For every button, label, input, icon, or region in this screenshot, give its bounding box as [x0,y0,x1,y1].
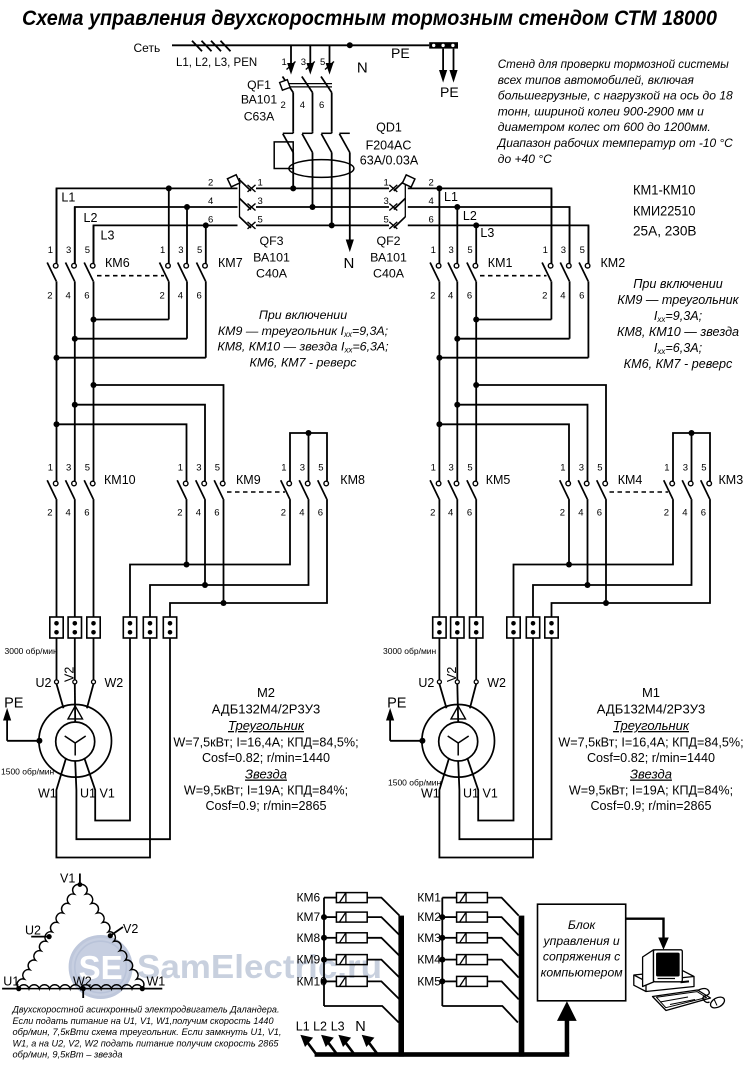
svg-text:1: 1 [560,463,565,474]
svg-text:КМ3: КМ3 [417,931,441,945]
svg-text:4: 4 [178,291,183,302]
svg-text:U1: U1 [80,787,96,801]
contactor pole 5-6 of КМ3 [707,481,712,486]
contactor pole 5-6 of КМ9 [220,481,225,486]
triangle tick W1 [142,988,162,990]
contactor КМ2 pole 5-6 [587,225,589,263]
RCD QD1 pole 4 [339,132,349,134]
svg-text:W2: W2 [73,975,92,989]
svg-text:QF2: QF2 [376,234,400,248]
watermark SamElectric.ru logo [70,937,382,998]
svg-text:Двухскоростной асинхронный эле: Двухскоростной асинхронный электродвигат… [12,1005,280,1016]
node rail L1 junction x=293.2 [290,185,296,191]
svg-text:W2: W2 [487,676,506,690]
contactor pole 1-2 of КМ3 [670,481,675,486]
svg-text:5: 5 [580,245,585,256]
svg-text:V2: V2 [123,922,138,936]
svg-text:W2: W2 [105,676,124,690]
wire ladder common [323,898,325,1006]
breaker QF2 [394,180,406,191]
motor M1 terminal V2 [455,680,459,684]
svg-text:С40А: С40А [256,267,288,281]
wire star bridge KM3 [673,433,710,481]
triangle tick U1 [2,988,19,990]
svg-text:PE: PE [4,696,24,712]
svg-text:PE: PE [387,696,407,712]
wire ladder common [441,898,443,1006]
svg-text:L1: L1 [296,1020,310,1034]
svg-text:5: 5 [320,57,325,68]
svg-text:1500 обр/мин: 1500 обр/мин [1,767,55,777]
svg-text:Стенд для проверки тормозной с: Стенд для проверки тормозной системы [498,57,729,71]
svg-text:3: 3 [66,463,71,474]
motor M2 terminal V2 [73,680,77,684]
svg-text:1: 1 [282,57,287,68]
wire motor V1 loop [84,638,130,821]
svg-text:Блок: Блок [568,918,597,932]
svg-text:КМ7: КМ7 [218,256,243,270]
triangle tap V2 [108,933,113,938]
svg-text:обр/мин, 9,5кВт – звезда: обр/мин, 9,5кВт – звезда [13,1050,123,1061]
svg-text:5: 5 [597,463,602,474]
RCD QD1 test rectangle [274,142,293,169]
svg-text:25А, 230В: 25А, 230В [633,223,697,239]
breaker QF1 tie bar and handle [284,83,332,85]
wire coil КМ1 to bus [487,898,518,916]
wire KM5.6 to terminal [475,499,477,617]
svg-text:W=9,5кВт; I=19А; КПД=84%;: W=9,5кВт; I=19А; КПД=84%; [569,784,733,798]
svg-text:Звезда: Звезда [630,767,672,782]
contactor КМ1 pole 3-4 [456,207,458,264]
svg-text:5: 5 [467,463,472,474]
bus thick right vertical [519,916,525,1057]
svg-text:С63А: С63А [244,110,275,124]
svg-text:5: 5 [467,245,472,256]
RCD QD1 pole 2 [312,132,314,134]
svg-text:1: 1 [664,463,669,474]
contactor КМ2 pole 1-2 [550,188,552,263]
svg-text:V2: V2 [445,667,459,682]
motor M2 terminal W2 [92,680,96,684]
svg-text:2: 2 [430,508,435,519]
node rail L3 junction x=476.2 [473,222,479,228]
wire KM10.4 to terminal [74,499,76,617]
svg-text:2: 2 [542,291,547,302]
svg-text:АДБ132М4/2Р3У3: АДБ132М4/2Р3У3 [597,702,705,717]
svg-text:1: 1 [543,245,548,256]
svg-text:6: 6 [84,291,89,302]
wire cross KM1.2-KM2.6 [439,357,588,359]
contactor pole 1-2 of КМ9 [183,481,188,486]
svg-text:4: 4 [560,291,565,302]
terminal block x=476.2 [470,617,483,638]
wire control box to computer [626,919,664,938]
motor M2 PE wire [36,738,42,744]
svg-text:При включении: При включении [259,308,347,322]
svg-text:4: 4 [448,291,453,302]
triangle tick V1 [79,874,81,885]
breaker QF3 [240,180,252,191]
svg-text:КМ4: КМ4 [618,473,643,487]
contactor pole 5-6 of КМ5 [473,481,478,486]
svg-text:4: 4 [196,508,201,519]
svg-text:W=9,5кВт; I=19А; КПД=84%;: W=9,5кВт; I=19А; КПД=84%; [184,784,348,798]
contactor pole 3-4 of КМ10 [72,481,77,486]
svg-text:КМ10: КМ10 [104,473,136,487]
svg-text:1: 1 [258,177,263,188]
svg-text:компьютером: компьютером [541,965,624,979]
svg-text:6: 6 [579,291,584,302]
motor M1 PE wire [419,738,425,744]
wire motor U1 loop [458,638,551,839]
svg-text:L3: L3 [331,1020,345,1034]
terminal block x=74.8 [68,617,81,638]
svg-text:сопряжения с: сопряжения с [543,950,620,964]
wire coil КМ8 to bus [367,938,399,956]
wire tap right to KM4.1 [439,424,569,481]
svg-text:КМ9: КМ9 [297,953,321,967]
wire column right 2 [475,320,477,482]
svg-text:всех типов автомобилей, включа: всех типов автомобилей, включая [498,73,694,87]
computer icon [634,950,726,1011]
svg-text:КМ8, КМ10 — звезда Iхх=6,3А;: КМ8, КМ10 — звезда Iхх=6,3А; [217,340,389,355]
interlock dashed KM1-KM2 [480,275,547,277]
wire motor W1 loop [56,638,150,858]
bus thick bottom horizontal [315,1052,570,1057]
svg-text:4: 4 [682,508,687,519]
terminal block x=56.5 [50,617,63,638]
svg-text:ВА101: ВА101 [370,251,407,265]
contactor pole 1-2 of КМ5 [436,481,441,486]
svg-text:W1: W1 [421,787,440,801]
node rail L2 junction x=312.5 [310,204,316,210]
wire N with arrow [346,240,353,251]
svg-text:4: 4 [300,100,305,111]
svg-text:КМИ22510: КМИ22510 [633,203,696,219]
svg-text:2: 2 [560,508,565,519]
breaker QF1 pole 5-6 [329,45,331,66]
winding triangle delta diagram [17,884,80,988]
svg-text:КМ8: КМ8 [297,931,321,945]
svg-text:ВА101: ВА101 [241,93,277,107]
svg-text:N: N [355,1019,365,1035]
svg-text:L3: L3 [480,226,494,240]
wire motor W1 loop [439,638,533,858]
svg-text:КМ5: КМ5 [486,473,511,487]
svg-text:V1: V1 [483,787,498,801]
svg-text:КМ6, КМ7 - реверс: КМ6, КМ7 - реверс [250,356,358,370]
contactor КМ7 pole 1-2 [168,188,170,263]
wire cross KM6.6-KM7.2 [94,319,169,321]
svg-text:диаметром колес от 600 до 1200: диаметром колес от 600 до 1200мм. [498,120,711,134]
svg-text:5: 5 [85,463,90,474]
svg-text:6: 6 [319,100,324,111]
svg-text:4: 4 [448,508,453,519]
svg-text:6: 6 [429,214,434,225]
contactor КМ6 pole 1-2 [56,188,58,263]
triangle tap W2 [81,986,86,991]
svg-text:L1, L2, L3, PEN: L1, L2, L3, PEN [176,57,257,69]
wire supply top [172,44,429,46]
svg-text:АДБ132М4/2Р3У3: АДБ132М4/2Р3У3 [212,702,320,717]
svg-text:V2: V2 [62,667,76,682]
svg-text:2: 2 [47,291,52,302]
svg-text:4: 4 [578,508,583,519]
svg-text:3: 3 [300,463,305,474]
svg-text:1: 1 [281,463,286,474]
wire low 2 right (B3'-KM4-KM3) [552,499,711,617]
svg-text:тонн, шириной колеи 900-2900 м: тонн, шириной колеи 900-2900 мм и [498,104,704,118]
node rail L1 junction x=168.8 [166,185,172,191]
svg-text:5: 5 [85,245,90,256]
terminal block x=533.0 [526,617,539,638]
svg-text:2: 2 [160,291,165,302]
svg-text:3: 3 [258,196,263,207]
motor M2 body [39,705,112,778]
terminal block x=513.5 [507,617,520,638]
contactor pole 5-6 of КМ8 [324,481,329,486]
wire KM5.4 to terminal [456,499,458,617]
svg-text:КМ7: КМ7 [297,910,321,924]
svg-text:5: 5 [701,463,706,474]
svg-text:5: 5 [384,214,389,225]
svg-text:1: 1 [431,245,436,256]
node rail L2 junction x=187.0 [184,204,190,210]
wire motor V1 loop [467,638,513,821]
svg-text:КМ2: КМ2 [601,256,626,270]
svg-text:до +40 °С: до +40 °С [498,152,552,166]
svg-text:ВА101: ВА101 [253,251,290,265]
wire tap right to KM4.5 [476,385,606,481]
node N junction [347,42,353,48]
wire low 1 right (B2'-KM4-KM3) [533,499,692,617]
svg-text:3000 обр/мин: 3000 обр/мин [383,646,437,656]
breaker QF1 pole 1-2 [290,45,292,66]
svg-text:При включении: При включении [633,277,723,291]
svg-text:КМ6: КМ6 [105,256,130,270]
svg-text:6: 6 [467,508,472,519]
svg-text:2: 2 [281,100,286,111]
svg-text:5: 5 [215,463,220,474]
svg-text:6: 6 [467,291,472,302]
bus thick riser to control box with arrow [565,1019,570,1054]
svg-text:U1: U1 [3,975,19,989]
svg-text:большегрузные, с нагрузкой на: большегрузные, с нагрузкой на ось до 18 [498,89,733,103]
svg-text:КМ8: КМ8 [340,473,365,487]
svg-text:6: 6 [597,508,602,519]
svg-text:Схема управления двухскоростны: Схема управления двухскоростным тормозны… [22,7,717,30]
svg-text:управления и: управления и [543,934,620,948]
svg-text:L2: L2 [463,209,477,223]
supply arrows L1 L2 L3 N [305,1040,316,1054]
svg-text:W=7,5кВт; I=16,4А; КПД=84,5%;: W=7,5кВт; I=16,4А; КПД=84,5%; [173,736,358,750]
svg-text:L2: L2 [84,211,98,225]
wire tap left to KM9.3 [75,405,205,482]
motor M1 delta symbol [451,706,466,719]
contactor pole 3-4 of КМ5 [454,481,459,486]
svg-text:Если подать питание на U1, V1,: Если подать питание на U1, V1, W1,получи… [13,1016,275,1027]
node rail L2 junction x=457.3 [454,204,460,210]
svg-text:1: 1 [384,177,389,188]
wire low 1 left (B2-KM9-KM8) [150,499,309,617]
svg-text:обр/мин, 7,5кВти схема треугол: обр/мин, 7,5кВти схема треугольник. Если… [13,1027,282,1038]
svg-text:Треугольник: Треугольник [613,718,690,733]
interlock dashed KM9-KM8 [227,491,285,493]
bus thick left vertical [398,916,404,1057]
contactor pole 3-4 of КМ9 [202,481,207,486]
svg-text:КМ2: КМ2 [417,910,441,924]
terminal block x=170.0 [163,617,176,638]
wire tap right to KM4.3 [457,405,587,482]
svg-text:6: 6 [214,508,219,519]
svg-text:6: 6 [318,508,323,519]
svg-text:W1: W1 [38,787,57,801]
wire tap left to KM9.1 [57,424,187,481]
svg-text:2: 2 [47,508,52,519]
svg-text:2: 2 [664,508,669,519]
svg-text:L1: L1 [61,191,75,205]
svg-text:1: 1 [160,245,165,256]
wire coil КМ6 to bus [367,898,399,916]
RCD QD1 sensor ellipse [289,160,354,178]
svg-text:3: 3 [196,463,201,474]
wire motor U1 loop [75,638,170,839]
node rail L3 junction x=331.7 [329,222,335,228]
wire coil КМ7 to bus [367,917,399,935]
svg-text:КМ6, КМ7 - реверс: КМ6, КМ7 - реверс [624,357,733,371]
terminal block x=130.0 [123,617,136,638]
wire cross KM6.4-KM7.4 [75,338,187,340]
motor M2 terminal U2 [55,680,59,684]
wire cross KM1.6-KM2.2 [476,319,551,321]
terminal block x=457.3 [451,617,464,638]
svg-text:U2: U2 [36,676,52,690]
contactor pole 3-4 of КМ8 [305,481,310,486]
PE down arrows [442,49,444,72]
svg-text:Треугольник: Треугольник [228,718,305,733]
wire coil КМ9 to bus [367,960,399,978]
svg-text:Сеть: Сеть [134,41,161,55]
svg-text:М2: М2 [257,685,275,700]
interlock dashed KM6-KM7 [97,275,164,277]
wire tap left to KM9.5 [94,385,224,481]
breaker QF1 pole 3-4 [309,45,311,66]
svg-text:3: 3 [66,245,71,256]
wire column right 1 [456,339,458,482]
RCD QD1 pole 3 [331,132,333,134]
contactor pole 1-2 of КМ8 [287,481,292,486]
svg-text:КМ3: КМ3 [719,473,744,487]
svg-text:4: 4 [299,508,304,519]
wire column right 0 [438,358,440,482]
contactor pole 3-4 of КМ3 [688,481,693,486]
node rail L3 junction x=205.8 [203,222,209,228]
svg-text:U2: U2 [418,676,434,690]
control box [538,904,626,1001]
wire cross KM1.4-KM2.4 [457,338,569,340]
motor M1 body [422,705,495,778]
svg-text:W1, а на U2, V2, W2 подать пит: W1, а на U2, V2, W2 подать питание получ… [13,1038,280,1049]
svg-text:3: 3 [683,463,688,474]
svg-text:5: 5 [318,463,323,474]
svg-text:3: 3 [301,57,306,68]
svg-text:КМ9: КМ9 [236,473,261,487]
svg-text:Cosf=0.82; r/min=1440: Cosf=0.82; r/min=1440 [202,751,330,765]
svg-text:2: 2 [429,177,434,188]
wire rail L3 [94,225,238,263]
svg-text:3: 3 [579,463,584,474]
svg-text:С40А: С40А [373,267,405,281]
svg-text:КМ9 — треугольник Iхх=9,3А;: КМ9 — треугольник Iхх=9,3А; [218,324,389,339]
wire coil КМ5 to bus [487,981,518,999]
contactor pole 1-2 of КМ4 [566,481,571,486]
wire column left 2 [93,320,95,482]
svg-text:V1: V1 [60,872,75,886]
svg-text:1: 1 [431,463,436,474]
svg-text:N: N [357,60,368,77]
contactor pole 5-6 of КМ10 [90,481,95,486]
svg-text:КМ1: КМ1 [488,256,513,270]
wire rail L2 [75,207,238,264]
RCD QD1 pole 1 [292,132,294,134]
svg-text:6: 6 [701,508,706,519]
svg-text:L2: L2 [313,1020,327,1034]
svg-text:Cosf=0.9; r/min=2865: Cosf=0.9; r/min=2865 [590,799,711,813]
wire coil КМ2 to bus [487,917,518,935]
svg-text:F204AC: F204AC [366,139,412,153]
svg-text:6: 6 [208,214,213,225]
contactor КМ6 pole 5-6 [93,225,95,263]
PE bus bar [429,42,458,48]
motor M2 star symbol [65,736,76,743]
wire cross KM6.2-KM7.6 [57,357,206,359]
motor M1 terminal U2 [437,680,441,684]
wire KM10.6 to terminal [93,499,95,617]
wire coil КМ10 to bus [367,981,399,999]
svg-text:5: 5 [197,245,202,256]
svg-text:6: 6 [197,291,202,302]
svg-text:PE: PE [391,45,410,61]
terminal block x=439.4 [433,617,446,638]
svg-text:L1: L1 [444,190,458,204]
interlock dashed KM4-KM3 [610,491,669,493]
svg-text:3: 3 [178,245,183,256]
contactor КМ6 pole 3-4 [74,207,76,264]
svg-text:2: 2 [177,508,182,519]
wire coil КМ4 to bus [487,960,518,978]
svg-text:2: 2 [208,177,213,188]
svg-text:КМ1-КМ10: КМ1-КМ10 [633,182,696,198]
svg-text:Cosf=0.9; r/min=2865: Cosf=0.9; r/min=2865 [205,799,326,813]
triangle tap U2 [47,934,52,939]
contactor КМ7 pole 3-4 [186,207,188,264]
svg-text:КМ4: КМ4 [417,953,441,967]
contactor КМ1 pole 1-2 [438,188,440,263]
svg-text:QF1: QF1 [247,78,271,92]
wire KM5.2 to terminal [438,499,440,617]
wire star bridge KM8 [290,433,327,481]
svg-text:3: 3 [449,463,454,474]
svg-text:L3: L3 [101,229,115,243]
svg-text:4: 4 [66,508,71,519]
svg-text:2: 2 [430,291,435,302]
svg-text:КМ5: КМ5 [417,974,441,988]
svg-text:КМ1: КМ1 [417,891,441,905]
svg-text:QD1: QD1 [376,121,402,135]
svg-text:63А/0.03А: 63А/0.03А [360,154,419,168]
svg-text:3000 обр/мин: 3000 обр/мин [5,646,59,656]
motor M2 delta symbol [68,706,83,719]
